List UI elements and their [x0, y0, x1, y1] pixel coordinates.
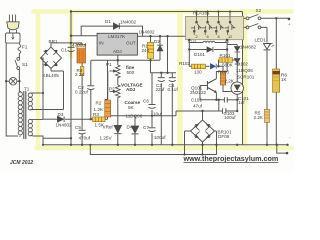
svg-text:P2: P2 [109, 87, 115, 92]
svg-text:0.22uf: 0.22uf [75, 90, 88, 95]
svg-text:R101: R101 [220, 53, 231, 58]
svg-text:R102: R102 [179, 61, 190, 66]
svg-text:-: - [289, 135, 291, 140]
svg-text:R2: R2 [96, 101, 102, 106]
svg-text:D4: D4 [127, 125, 133, 130]
svg-text:47uf: 47uf [193, 104, 203, 109]
svg-text:S1: S1 [22, 62, 28, 67]
svg-text:11DQ06: 11DQ06 [126, 114, 143, 119]
svg-text:22uf: 22uf [156, 87, 166, 92]
svg-text:D102: D102 [237, 62, 248, 67]
svg-text:1N4002: 1N4002 [120, 20, 137, 25]
svg-text:5K: 5K [128, 105, 135, 110]
svg-text:P1: P1 [106, 62, 112, 67]
svg-text:1 1/2: 1 1/2 [188, 39, 197, 44]
svg-text:D1: D1 [105, 19, 111, 24]
svg-text:1N4682: 1N4682 [240, 45, 257, 50]
svg-text:130: 130 [194, 70, 202, 75]
svg-text:4700uf: 4700uf [72, 42, 87, 47]
svg-text:2N2222: 2N2222 [190, 90, 207, 95]
svg-text:LM317K: LM317K [108, 34, 126, 39]
svg-text:ADJ: ADJ [126, 87, 136, 92]
svg-text:DF08: DF08 [218, 134, 230, 139]
svg-text:2.2K: 2.2K [75, 72, 85, 77]
svg-text:ADJ: ADJ [113, 49, 122, 54]
svg-text:S2: S2 [256, 8, 262, 13]
svg-text:T1: T1 [24, 87, 30, 92]
svg-text:C102: C102 [191, 98, 202, 103]
svg-text:JCM 2012: JCM 2012 [10, 160, 33, 166]
svg-text:2.2K: 2.2K [254, 115, 264, 120]
svg-text:RLA181: RLA181 [193, 11, 210, 16]
svg-text:F1: F1 [22, 45, 28, 50]
svg-text:D101: D101 [194, 52, 205, 57]
svg-text:OUT: OUT [126, 41, 136, 46]
svg-text:12: 12 [228, 34, 232, 39]
svg-text:+: + [288, 22, 291, 27]
svg-text:R103: R103 [218, 70, 229, 75]
svg-text:VRef: VRef [103, 125, 114, 130]
svg-text:1N4002: 1N4002 [139, 30, 156, 35]
svg-text:2.2K: 2.2K [225, 79, 235, 84]
svg-text:BR1: BR1 [49, 39, 58, 44]
svg-text:www.theprojectasylum.com: www.theprojectasylum.com [183, 154, 279, 163]
svg-text:500: 500 [127, 70, 135, 75]
svg-text:1.25V: 1.25V [100, 136, 113, 141]
svg-text:R3: R3 [93, 112, 99, 117]
svg-text:D2: D2 [154, 39, 160, 44]
svg-text:2: 2 [196, 34, 198, 39]
svg-text:SCR101: SCR101 [237, 75, 255, 80]
svg-text:10uf: 10uf [153, 112, 163, 117]
svg-text:D3: D3 [58, 112, 64, 117]
svg-text:C6: C6 [143, 99, 149, 104]
svg-text:C5: C5 [75, 125, 81, 130]
svg-text:C1: C1 [61, 48, 67, 53]
svg-text:1K: 1K [281, 77, 288, 82]
svg-text:560K: 560K [222, 63, 234, 68]
svg-text:LED1: LED1 [255, 38, 267, 43]
svg-text:0.1uf: 0.1uf [168, 87, 179, 92]
svg-text:100uf: 100uf [224, 115, 236, 120]
svg-text:1uf: 1uf [238, 100, 245, 105]
svg-text:IN: IN [99, 41, 104, 46]
svg-text:8: 8 [218, 34, 220, 39]
svg-text:C7: C7 [143, 125, 149, 130]
svg-text:100uf: 100uf [154, 135, 166, 140]
svg-text:6: 6 [207, 34, 209, 39]
svg-text:11DQ06: 11DQ06 [236, 68, 253, 73]
svg-text:470uf: 470uf [79, 135, 91, 140]
svg-text:KBL405: KBL405 [43, 73, 60, 78]
svg-text:1N4002: 1N4002 [56, 123, 73, 128]
svg-text:240: 240 [142, 48, 150, 53]
